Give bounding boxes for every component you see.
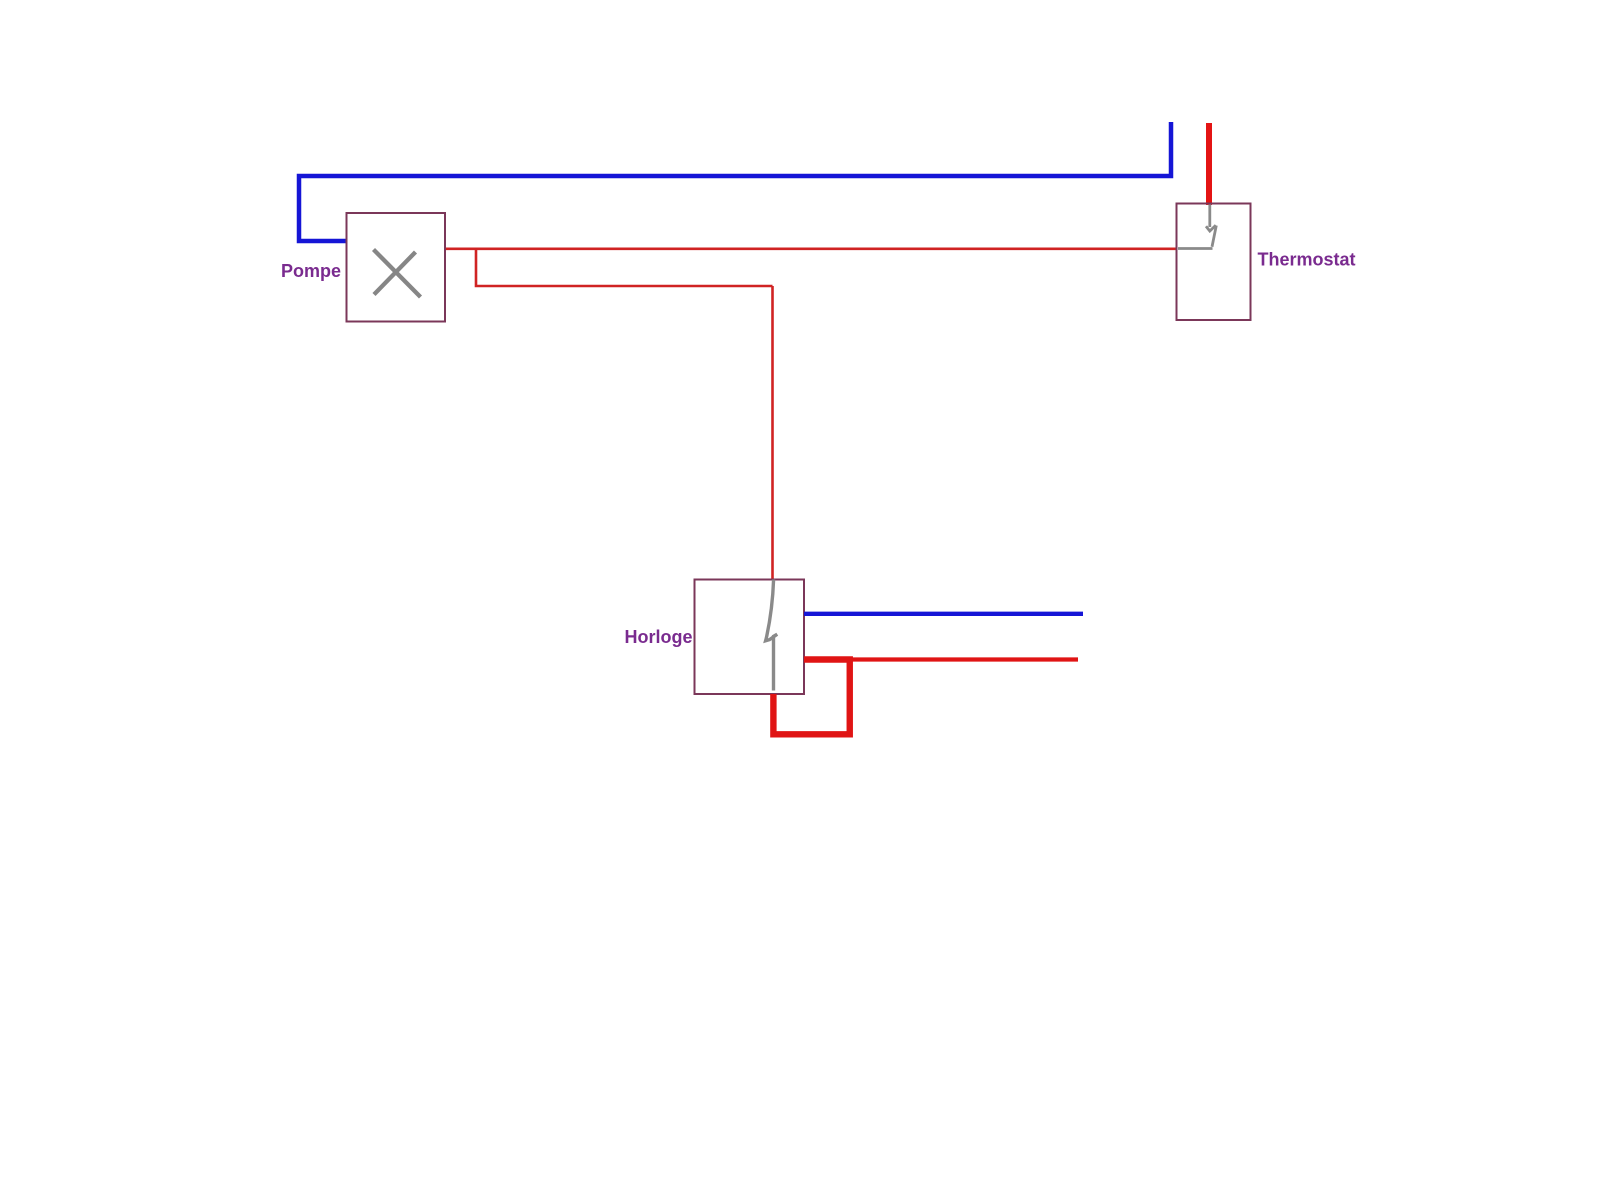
box Horloge (695, 580, 805, 695)
wire blue neutral: from top right down, across top, down to Pompe (299, 122, 1171, 241)
wire red: Horloge right output (850, 657, 1078, 661)
svg-text:Horloge: Horloge (624, 627, 692, 647)
svg-text:Thermostat: Thermostat (1258, 250, 1356, 270)
wire red thin: vertical down to Horloge (771, 286, 774, 580)
motor symbol X in Pompe (374, 250, 421, 298)
wire red thin: junction drop near Pompe (476, 249, 773, 286)
svg-text:Pompe: Pompe (281, 261, 341, 281)
switch symbol in Thermostat (1178, 205, 1216, 249)
box Pompe (347, 213, 446, 322)
wire red phase: thick vertical into Thermostat top (1206, 123, 1212, 205)
wire blue: Horloge right output (804, 612, 1083, 616)
wire red loop: Horloge bottom return (773, 660, 849, 735)
wire red thin: Pompe right to Thermostat left (445, 248, 1177, 251)
switch symbol in Horloge (766, 580, 778, 691)
box Thermostat (1177, 204, 1251, 321)
